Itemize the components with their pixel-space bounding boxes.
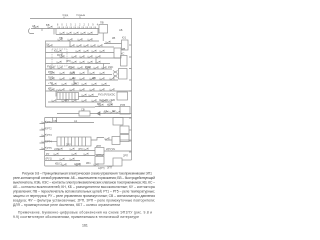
svg-text:8 0 1 5 1 2 2 3 9 4: 8 0 1 5 1 2 2 3 9 4	[57, 25, 99, 27]
svg-text:2РП: 2РП	[96, 144, 101, 148]
svg-text:+СЖ: +СЖ	[107, 102, 113, 106]
svg-text:КС: КС	[121, 52, 124, 56]
svg-text:РУВ: РУВ	[47, 65, 52, 69]
svg-text:РУМ: РУМ	[85, 65, 90, 69]
svg-text:(РУ1): (РУ1)	[46, 156, 53, 160]
svg-text:АБ: АБ	[119, 28, 123, 32]
svg-text:КБ1: КБ1	[86, 161, 91, 165]
svg-text:РУ5 (РУ5)КЭС: РУ5 (РУ5)КЭС	[98, 93, 115, 97]
svg-text:А(РТ): А(РТ)	[98, 166, 105, 170]
svg-text:КН: КН	[72, 76, 76, 80]
svg-text:ФУ1: ФУ1	[57, 53, 63, 57]
svg-text:ПУФ: ПУФ	[48, 76, 53, 80]
svg-text:Спрд: Спрд	[63, 14, 69, 17]
svg-text:161: 161	[82, 224, 88, 228]
svg-text:х(РУ: х(РУ	[54, 147, 60, 151]
svg-text:ЗПТ: ЗПТ	[107, 166, 112, 170]
svg-text:РТ5: РТ5	[47, 146, 52, 150]
svg-text:ЗнО+О(-х)ЕВ: ЗнО+О(-х)ЕВ	[99, 98, 115, 102]
svg-text:2П1: 2П1	[68, 65, 73, 69]
svg-text:Примечание. Буквенно-цифровые: Примечание. Буквенно-цифровые обозначени…	[18, 211, 152, 215]
svg-text:ДЛЯ – промежуточные реле davле: ДЛЯ – промежуточные реле davления, КБТ –…	[13, 203, 120, 207]
svg-text:ОВ: ОВ	[92, 76, 96, 80]
svg-text:А(Л): А(Л)	[70, 71, 75, 75]
svg-text:КВ: КВ	[112, 36, 116, 40]
svg-text:+ТД: +ТД	[48, 81, 53, 85]
svg-text:ЗРП3А: ЗРП3А	[96, 153, 105, 157]
svg-text:КЭС: КЭС	[108, 65, 113, 69]
svg-text:2РП: 2РП	[123, 154, 128, 158]
svg-text:Ю1: Ю1	[122, 36, 127, 40]
svg-text:ФУ: ФУ	[112, 109, 116, 113]
svg-text:2(РУ)бх: 2(РУ)бх	[106, 147, 116, 151]
svg-text:А(РТ): А(РТ)	[74, 162, 81, 166]
svg-text:КБ(С): КБ(С)	[55, 162, 62, 166]
svg-text:РУ2: РУ2	[74, 82, 79, 86]
svg-text:реле-контакторной схемой управ: реле-контакторной схемой управления: АБ …	[13, 176, 155, 180]
svg-text:АБ – контакты выключателей; КН: АБ – контакты выключателей; КН, КБ – раз…	[13, 185, 156, 189]
svg-text:РУВ: РУВ	[120, 103, 125, 107]
svg-text:АБ: АБ	[32, 24, 36, 28]
svg-text:РТВ: РТВ	[48, 70, 53, 74]
svg-text:Рисунок 9.8 – Принципиальная э: Рисунок 9.8 – Принципиальная электрическ…	[22, 171, 152, 175]
svg-text:РУ: РУ	[46, 152, 50, 156]
svg-text:СУ: СУ	[56, 89, 60, 93]
svg-text:РТ4: РТ4	[47, 139, 52, 143]
svg-text:к2: к2	[54, 49, 57, 53]
svg-text:А1: А1	[74, 119, 78, 123]
svg-text:КР1: КР1	[48, 87, 53, 91]
svg-text:СВ: СВ	[81, 107, 85, 111]
svg-text:ОК: ОК	[46, 43, 50, 47]
svg-text:управления; ПВ – переключатель: управления; ПВ – переключатель вспомогат…	[13, 189, 155, 193]
svg-text:выключатель; КЭБ, КЭС – контак: выключатель; КЭБ, КЭС – контакты электро…	[13, 180, 155, 184]
svg-text:(РУ): (РУ)	[78, 147, 83, 151]
svg-text:РТ1: РТ1	[47, 120, 52, 124]
svg-text:(РУ): (РУ)	[66, 59, 71, 63]
svg-text:защиты от перегрузок; РУ – рел: защиты от перегрузок; РУ – реле управлен…	[13, 194, 155, 198]
svg-text:9.9) соответствуют обозначения: 9.9) соответствуют обозначениям, применя…	[13, 215, 139, 219]
svg-text:БВ: БВ	[46, 23, 50, 27]
svg-text:ПВ: ПВ	[59, 36, 63, 40]
svg-text:воздуха; ФУ – фильтры установо: воздуха; ФУ – фильтры установочные; 2РП,…	[13, 198, 155, 202]
svg-text:КВ: КВ	[54, 119, 58, 123]
svg-text:Горным: Горным	[77, 14, 86, 17]
svg-text:КВ: КВ	[122, 47, 126, 51]
svg-text:РТ2: РТ2	[47, 126, 52, 130]
svg-text:2РУ: 2РУ	[66, 142, 71, 146]
svg-text:РТ3: РТ3	[47, 133, 52, 137]
svg-text:А2: А2	[104, 109, 108, 113]
svg-text:(РУ: (РУ	[65, 99, 70, 103]
svg-text:МВ: МВ	[97, 102, 101, 106]
svg-text:ПВ: ПВ	[100, 21, 104, 25]
